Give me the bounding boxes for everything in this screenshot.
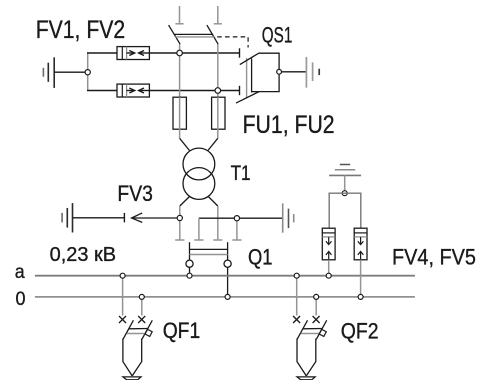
arrester FV5 [354, 228, 367, 260]
bus a [35, 275, 415, 277]
transformer T1 primary winding [183, 148, 215, 180]
wire QF1 feed from bus a [122, 278, 124, 316]
transformer T1 secondary winding [183, 168, 215, 200]
wire Q1 right leg to bus 0 [227, 267, 229, 296]
disconnector QS1 fixed contact stub B [214, 6, 222, 24]
wire gray leg 0 (transformer secondary) [217, 206, 219, 240]
wire slant FU2 to transformer [208, 138, 218, 151]
node D below earth [342, 191, 347, 196]
node QF1 on bus 0 [139, 294, 144, 299]
QF2 drawout contact x left [293, 316, 300, 323]
wire QF1 outgoing legs [123, 339, 142, 376]
wire header FV4/FV5 [329, 193, 361, 228]
QS1 earthing switch frame [252, 53, 279, 91]
wire FV4 leg to bus a [328, 260, 330, 276]
FV3 electrode bar [123, 213, 125, 223]
terminal bar phase B [239, 86, 241, 95]
wire gray stub C [198, 218, 200, 240]
breaker Q1 pole left [189, 242, 191, 260]
node QF2 on bus a [294, 273, 299, 278]
breaker QF2 blades and linkage [297, 320, 327, 339]
node QF2 on bus 0 [314, 294, 319, 299]
QS1 linkage bar black [174, 33, 213, 35]
node phase B / column B [215, 88, 221, 94]
wire earth stem [344, 175, 346, 193]
terminal bar phase A [239, 48, 241, 57]
disconnector QS1 fixed contact stub A [175, 6, 183, 24]
FV3 arrow (tube arrester) [132, 213, 180, 223]
wire ground G2 to FV3 electrode [73, 217, 125, 219]
QS1 blade B [207, 25, 218, 44]
svg-text:T1: T1 [231, 161, 251, 185]
svg-text:FU1, FU2: FU1, FU2 [243, 111, 335, 139]
wire through FU1 [179, 97, 181, 138]
QF1 drawout contact x left [119, 316, 126, 323]
QS1 earthing blade phase A [240, 53, 259, 65]
arrester FV1 [117, 47, 149, 60]
arrester FV2 [117, 84, 149, 97]
tick contact leg 0 [213, 239, 222, 241]
svg-text:QS1: QS1 [262, 22, 293, 47]
wire QF2 feed from bus a [296, 278, 298, 316]
wire gray feed column B [217, 44, 219, 97]
Q1 crossbar gray [190, 254, 228, 256]
arrester FV4 [322, 228, 335, 260]
wire FV5 leg to bus 0 [360, 260, 362, 297]
bus 0 [35, 296, 415, 298]
wire slant transformer to leg 0 [208, 197, 218, 207]
ground G1 top-left [43, 57, 54, 88]
svg-text:Q1: Q1 [248, 244, 273, 269]
node QF1 on bus a [120, 273, 125, 278]
wire QF2 feed from bus 0 [315, 299, 317, 316]
svg-text:QF2: QF2 [341, 318, 379, 343]
QS1 earthing switch bar gray [246, 58, 248, 99]
ground G2 left [62, 203, 72, 232]
tick contact stub C [194, 239, 203, 241]
QF1 drawout contact x right [138, 316, 145, 323]
earth symbol above FV4 FV5 [329, 165, 361, 176]
wire gray riser at x=87.7 [87, 53, 89, 91]
QS1 earthing blade phase B [236, 92, 259, 104]
wire ground G1 to node A [54, 71, 87, 73]
QF1 outgoing feeder arrow [123, 377, 141, 380]
svg-text:FV1, FV2: FV1, FV2 [36, 16, 126, 44]
node Q1 right on bus 0 [225, 294, 230, 299]
node A [85, 70, 90, 75]
fuse FU2 [212, 97, 225, 129]
Q1 contact circle left [186, 260, 193, 267]
wire through FU2 [217, 97, 219, 138]
node Q1 left on bus a [187, 273, 192, 278]
wire gray stub D [236, 218, 238, 240]
svg-text:FV4, FV5: FV4, FV5 [392, 245, 476, 270]
wire QF2 outgoing legs [297, 339, 316, 376]
Q1 contact circle right [224, 260, 231, 267]
wire neutral to ground G3 [199, 217, 283, 219]
ground G3 [283, 203, 294, 232]
wire phase B (y=90.5) [87, 90, 240, 92]
wire phase A (y=53) [87, 52, 240, 54]
tick contact stub D [232, 239, 241, 241]
svg-text:0: 0 [16, 288, 26, 310]
wire gray leg a (transformer secondary) [179, 206, 181, 240]
svg-text:0,23 кВ: 0,23 кВ [50, 243, 117, 266]
fuse FU1 [173, 97, 186, 129]
wire Q1 left leg to bus a [189, 267, 191, 275]
node on earthing switch frame [277, 69, 282, 74]
svg-text:QF1: QF1 [163, 318, 201, 343]
wire earthing switch to ground G4 [282, 71, 307, 73]
QS1 earthing switch bar black [251, 59, 253, 93]
node C on neutral wire [234, 216, 239, 221]
node B (leg a / FV3 wire) [177, 215, 182, 220]
node FV5 on bus 0 [358, 294, 363, 299]
svg-text:a: a [15, 261, 25, 283]
wire gray feed column A [179, 44, 181, 97]
wire slant transformer to leg a [180, 197, 190, 207]
breaker QF1 blades and linkage [123, 320, 152, 339]
wire slant FU1 to transformer [180, 138, 190, 151]
tick contact leg a [175, 239, 184, 241]
wire QF1 feed from bus 0 [141, 299, 143, 316]
QS1 dashed linkage to earthing switch [217, 37, 248, 48]
svg-text:FV3: FV3 [117, 181, 152, 206]
breaker Q1 pole right [227, 242, 229, 260]
QS1 linkage bar gray [175, 36, 214, 38]
QS1 blade A [169, 25, 181, 44]
node phase A / column A [177, 50, 183, 56]
node FV4 on bus a [326, 273, 331, 278]
Q1 crossbar black [190, 248, 228, 250]
QF2 outgoing feeder arrow [297, 377, 315, 380]
ground G4 right of QS1 [306, 57, 319, 88]
QF2 drawout contact x right [313, 316, 320, 323]
